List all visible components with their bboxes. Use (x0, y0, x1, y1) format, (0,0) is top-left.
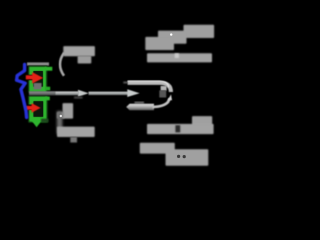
label F small mark (70, 137, 77, 143)
green motion arrow down (31, 118, 42, 127)
upper ring bottom flange (45, 87, 50, 91)
faint stub left of upper rod (123, 82, 128, 84)
label D dark dots (177, 155, 180, 158)
gap in upper ring left wall (27, 75, 33, 81)
thin ledge above slab (135, 102, 145, 104)
upper coil ring outline (28, 66, 48, 93)
label D left chunk (140, 143, 175, 154)
label A block left (145, 37, 174, 50)
contact block (161, 86, 167, 91)
label E line 2 (78, 56, 92, 64)
shaft segment 2 (89, 92, 129, 95)
label C dark notch (175, 125, 180, 132)
upper ring top flange (45, 67, 52, 71)
label A specular dot (170, 33, 172, 35)
lower coil ring outline (28, 95, 48, 123)
top gray plate (27, 62, 49, 65)
shaft arrowhead 1 (78, 90, 89, 97)
motion arrow shade (41, 119, 49, 123)
label F specular dot (60, 115, 62, 117)
upper contact rod (128, 83, 171, 92)
label F block 1 (63, 103, 74, 119)
label C line (147, 124, 214, 134)
label C upper chunk (192, 116, 212, 126)
label F block 2 (57, 112, 64, 119)
lower ring top flange (46, 97, 50, 101)
label E line 1 (63, 46, 95, 56)
label F line (57, 127, 95, 137)
upper coil ring (29, 67, 46, 92)
label B bright notch (175, 53, 179, 58)
label D right block (166, 149, 209, 166)
label A block right (184, 25, 215, 38)
lower rod tip arrow (168, 94, 172, 100)
upper rod highlight (128, 81, 169, 87)
upper flux arrow (red) (26, 72, 43, 84)
lower coil ring (29, 97, 46, 122)
label B line (147, 53, 212, 62)
membrane (blue) (17, 64, 27, 117)
label F leader streak (57, 111, 63, 134)
lower rod curve up (153, 98, 170, 107)
gap in lower ring left wall (27, 105, 33, 111)
shaft arrowhead 2 (127, 89, 139, 97)
upper ring hole shading (33, 71, 42, 87)
label A block middle (158, 31, 187, 44)
label E brace arc (60, 53, 64, 76)
armature shaft (29, 91, 79, 95)
lower flux arrow (red) (26, 103, 41, 113)
shaft left shading (29, 91, 56, 95)
iron block in upper ring (34, 83, 42, 90)
lower ring hole shading (34, 101, 44, 116)
lower contact rod slab (126, 104, 154, 111)
smudge under arrowhead 1 (74, 96, 83, 98)
